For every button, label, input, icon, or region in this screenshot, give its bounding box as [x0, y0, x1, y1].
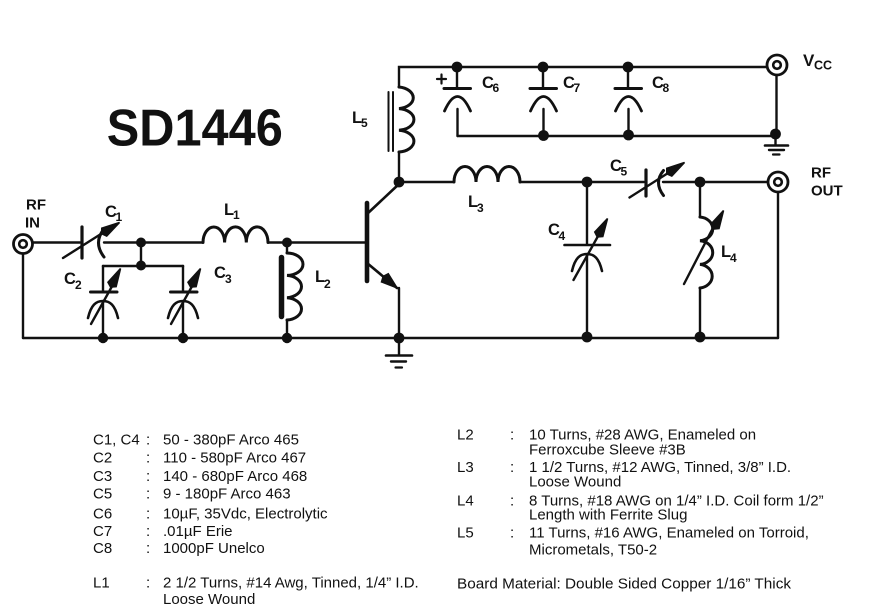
svg-text:L4: L4: [457, 493, 474, 510]
svg-text:L1: L1: [93, 575, 110, 592]
svg-text:3: 3: [225, 272, 232, 286]
wire: node E to C5: [587, 181, 644, 183]
svg-text:2: 2: [75, 278, 82, 292]
junction dot C6-top: [452, 62, 463, 73]
svg-text:Ferroxcube Sleeve #3B: Ferroxcube Sleeve #3B: [529, 442, 686, 459]
svg-text:5: 5: [621, 165, 628, 179]
svg-text:3: 3: [477, 201, 484, 215]
svg-text::: :: [146, 523, 150, 540]
wire: bypass lower rail: [458, 133, 776, 136]
label C6: [482, 74, 500, 95]
node E junction: [582, 177, 593, 188]
wire: emitter down to bottom rail: [398, 288, 400, 338]
title SD1446: [107, 99, 283, 157]
junction dot C8-bottom: [623, 130, 634, 141]
node F junction: [695, 177, 706, 188]
svg-text::: :: [146, 575, 150, 592]
junction dot C8-top: [623, 62, 634, 73]
svg-text:C3: C3: [93, 468, 112, 485]
label C5: [610, 157, 628, 179]
label C3: [214, 264, 232, 286]
svg-text::: :: [510, 459, 514, 476]
svg-text:C2: C2: [93, 450, 112, 467]
plus sign C6: [437, 75, 446, 84]
VCC connector: [767, 55, 787, 75]
svg-text:C6: C6: [93, 506, 112, 523]
wire: C1 to node A: [104, 241, 141, 243]
svg-text:50 - 380pF Arco 465: 50 - 380pF Arco 465: [163, 432, 299, 449]
node C junction: [282, 238, 292, 248]
wire: node A down to node B: [140, 243, 142, 266]
label RF IN: [25, 197, 46, 232]
svg-text:IN: IN: [25, 215, 40, 232]
wire: L3 to node E: [520, 181, 587, 183]
wire: C4 to bottom rail: [586, 255, 588, 338]
svg-text:C5: C5: [93, 486, 112, 503]
label C2: [64, 270, 82, 292]
RF OUT connector: [768, 172, 788, 192]
wire: header down to C2: [102, 266, 104, 291]
svg-text::: :: [146, 432, 150, 449]
wire: RF IN down: [22, 254, 24, 338]
junction dot L4-bottom: [695, 332, 706, 343]
svg-text::: :: [146, 540, 150, 557]
svg-text:RF: RF: [26, 197, 46, 214]
svg-text:6: 6: [493, 81, 500, 95]
svg-text:11 Turns, #16 AWG, Enameled on: 11 Turns, #16 AWG, Enameled on Torroid,: [529, 525, 809, 542]
svg-text:1000pF Unelco: 1000pF Unelco: [163, 540, 265, 557]
label C4: [548, 221, 566, 243]
wire: L1 to node C: [268, 241, 287, 243]
svg-text::: :: [146, 506, 150, 523]
svg-text::: :: [510, 525, 514, 542]
capacitor C6 (electrolytic): [444, 67, 471, 136]
wire: node C down to L2: [286, 243, 288, 254]
wire: bottom rail: [23, 337, 778, 339]
svg-text:L3: L3: [457, 459, 474, 476]
label C8: [652, 74, 670, 95]
svg-text:7: 7: [574, 81, 581, 95]
wire: VCC down to bypass rail: [775, 76, 777, 134]
label C1: [105, 203, 123, 224]
svg-text:.01µF Erie: .01µF Erie: [163, 523, 233, 540]
svg-text:2: 2: [324, 277, 331, 291]
junction dot under VCC: [770, 129, 781, 140]
junction dot C7-top: [538, 62, 549, 73]
svg-text:4: 4: [559, 229, 566, 243]
svg-text:C7: C7: [93, 523, 112, 540]
capacitor C8: [615, 67, 642, 134]
label VCC: [803, 51, 832, 73]
svg-text:9 - 180pF Arco 463: 9 - 180pF Arco 463: [163, 486, 291, 503]
junction dot emitter-bottom: [394, 333, 405, 344]
inductor L4 (variable): [684, 211, 724, 289]
svg-text::: :: [146, 468, 150, 485]
capacitor C4 (shunt variable): [565, 219, 611, 281]
wire: L5 top to VCC rail: [399, 67, 766, 87]
svg-text::: :: [510, 493, 514, 510]
junction dot C7-bottom: [538, 130, 549, 141]
svg-text:Micrometals, T50-2: Micrometals, T50-2: [529, 542, 657, 559]
svg-text:1: 1: [233, 208, 240, 222]
wire: L2 to bottom rail: [286, 320, 288, 338]
capacitor C1 (series variable): [63, 223, 120, 259]
wire: header down to C3: [182, 266, 184, 291]
svg-text:L2: L2: [457, 427, 474, 444]
inductor L2: [282, 253, 303, 320]
node B junction: [136, 261, 146, 271]
wire: C2 to bottom rail: [102, 302, 104, 338]
wire: node E down to C4: [586, 182, 588, 244]
wire: C5 to node F: [663, 181, 700, 183]
svg-text::: :: [146, 486, 150, 503]
wire: RF IN to C1: [34, 241, 81, 243]
transistor Q1 emitter: [367, 263, 397, 288]
wire: node A to L1: [141, 241, 203, 243]
RF IN connector J1: [14, 235, 33, 254]
svg-text:Loose Wound: Loose Wound: [163, 591, 255, 608]
junction dot C3-bottom: [178, 333, 188, 343]
label C7: [563, 74, 581, 95]
svg-text:4: 4: [730, 251, 737, 265]
svg-text:Length with Ferrite Slug: Length with Ferrite Slug: [529, 507, 687, 524]
svg-text:2 1/2 Turns, #14 Awg, Tinned,: 2 1/2 Turns, #14 Awg, Tinned, 1/4” I.D.: [163, 575, 419, 592]
junction dot C2-bottom: [98, 333, 108, 343]
wire: RF OUT down: [777, 193, 779, 339]
label L3: [468, 193, 484, 215]
node A junction: [136, 238, 146, 248]
svg-text:C8: C8: [93, 540, 112, 557]
capacitor C5 (series variable): [630, 163, 685, 198]
svg-text:Board Material: Double Sided C: Board Material: Double Sided Copper 1/16…: [457, 576, 792, 593]
label RF OUT: [811, 165, 843, 200]
capacitor C7: [530, 67, 557, 135]
svg-text:RF: RF: [811, 165, 831, 182]
label L5: [352, 109, 368, 130]
capacitor C2 (shunt variable): [88, 269, 121, 325]
svg-text:140 - 680pF Arco 468: 140 - 680pF Arco 468: [163, 468, 307, 485]
transistor Q1 collector: [367, 184, 399, 214]
wire: node F to RF OUT: [700, 181, 767, 183]
svg-text::: :: [510, 427, 514, 444]
inductor L3: [454, 166, 520, 182]
svg-text::: :: [146, 450, 150, 467]
svg-text:OUT: OUT: [811, 183, 843, 200]
wire: node D to L3: [399, 181, 454, 183]
capacitor C3 (shunt variable): [168, 269, 201, 325]
svg-text:110 - 580pF Arco 467: 110 - 580pF Arco 467: [163, 450, 306, 467]
wire: C3 to bottom rail: [182, 302, 184, 338]
svg-text:Loose Wound: Loose Wound: [529, 474, 621, 491]
wire: node D up to L5: [398, 152, 400, 182]
svg-text:1: 1: [116, 210, 123, 224]
ground under VCC: [765, 134, 788, 155]
inductor L1: [203, 227, 268, 243]
junction dot L2-bottom: [282, 333, 292, 343]
svg-text:L5: L5: [457, 525, 474, 542]
ground under emitter: [386, 338, 412, 368]
wire: L4 to bottom rail: [699, 288, 701, 338]
node D junction (collector node): [394, 177, 405, 188]
label L1: [224, 201, 240, 222]
transistor Q1 base bar: [365, 203, 370, 281]
svg-text:8: 8: [663, 81, 670, 95]
wire: C2/C3 header: [103, 265, 183, 268]
inductor L5: [389, 87, 414, 152]
svg-text:10µF, 35Vdc, Electrolytic: 10µF, 35Vdc, Electrolytic: [163, 506, 328, 523]
svg-text:5: 5: [361, 116, 368, 130]
svg-text:C1, C4: C1, C4: [93, 432, 140, 449]
parts list text: [93, 427, 824, 609]
wire: node C to transistor base: [287, 241, 365, 243]
label L4: [721, 243, 737, 265]
label L2: [315, 268, 331, 291]
svg-text:SD1446: SD1446: [107, 99, 283, 157]
wire: node F down to L4: [699, 182, 701, 217]
svg-text:CC: CC: [814, 59, 832, 73]
junction dot C4-bottom: [582, 332, 593, 343]
